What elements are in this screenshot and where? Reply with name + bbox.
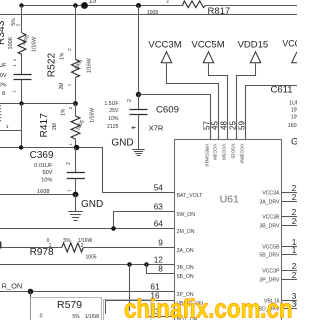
svg-text:5B_DRV: 5B_DRV: [259, 253, 280, 259]
svg-text:VCC3BW: VCC3BW: [240, 144, 245, 164]
svg-text:59: 59: [238, 121, 247, 130]
net label fragment left edge (3A_ON): [0, 242, 1, 249]
svg-text:2: 2: [81, 243, 84, 249]
svg-text:VCC3A: VCC3A: [262, 191, 280, 197]
svg-text:chinafix.com.cn: chinafix.com.cn: [124, 296, 293, 320]
svg-text:54: 54: [154, 184, 164, 193]
svg-text:GND: GND: [111, 138, 133, 149]
resistor R978 on 3A_ON (pin 9): [0, 247, 62, 249]
capacitor C609: [138, 6, 140, 95]
svg-text:28: 28: [292, 262, 297, 271]
svg-text:1/16W: 1/16W: [31, 37, 37, 52]
svg-text:U61: U61: [220, 193, 239, 205]
svg-text:10%: 10%: [108, 116, 119, 122]
outline box (bottom middle group): [104, 300, 152, 320]
svg-text:VCC3B: VCC3B: [262, 215, 280, 221]
svg-text:1005: 1005: [85, 254, 96, 260]
svg-text:0V: 0V: [0, 73, 7, 79]
svg-text:22: 22: [292, 193, 297, 202]
off-page connector (dashed, left edge): [0, 105, 2, 122]
svg-text:5%: 5%: [72, 314, 80, 320]
U61 right pins: [282, 192, 298, 194]
svg-text:3A_ON: 3A_ON: [177, 248, 194, 254]
svg-text:8: 8: [158, 265, 163, 274]
svg-text:2: 2: [66, 162, 72, 165]
svg-text:VCC3M: VCC3M: [213, 144, 218, 160]
svg-text:C369: C369: [30, 150, 54, 161]
svg-text:VCC5M: VCC5M: [191, 39, 224, 50]
svg-text:GND: GND: [81, 199, 103, 210]
svg-text:R579: R579: [57, 299, 82, 311]
wire: top net A horizontal: [22, 5, 298, 7]
wire: net D horizontal: [0, 103, 76, 105]
svg-text:UF: UF: [0, 63, 7, 69]
op-amp U61 IC body: [175, 140, 282, 320]
svg-text:C609: C609: [156, 104, 179, 115]
svg-text:1.5UF: 1.5UF: [104, 101, 118, 107]
svg-text:30: 30: [292, 300, 297, 309]
svg-text:12: 12: [154, 256, 164, 265]
ground (C369): [75, 195, 77, 212]
resistor R343: [21, 6, 23, 34]
svg-text:R417: R417: [39, 113, 50, 138]
svg-text:2M: 2M: [59, 83, 65, 90]
svg-text:2: 2: [127, 99, 133, 102]
wire: second top net B horizontal: [0, 14, 297, 16]
resistor R817: [182, 1, 205, 8]
svg-text:1UF: 1UF: [289, 101, 297, 107]
svg-text:1: 1: [6, 124, 9, 130]
svg-text:45: 45: [211, 121, 220, 130]
svg-text:C611: C611: [271, 85, 293, 96]
svg-text:1608: 1608: [288, 123, 297, 129]
svg-text:1005: 1005: [147, 10, 159, 16]
svg-text:25V: 25V: [109, 108, 119, 114]
svg-text:48: 48: [220, 121, 229, 130]
wire: left stub into net D column: [21, 104, 23, 148]
resistor R522: [75, 6, 77, 60]
wire: VBL16_ON (pin 16): [106, 301, 175, 315]
svg-text:2: 2: [15, 23, 21, 26]
wire: 5B_ON (pin 8): [147, 265, 175, 274]
svg-text:63: 63: [154, 203, 164, 212]
svg-text:64: 64: [154, 220, 164, 229]
svg-text:10%: 10%: [291, 115, 297, 121]
svg-text:2125: 2125: [107, 124, 119, 130]
svg-text:20: 20: [292, 217, 297, 226]
wire: 3P_ON (pin 61) with net label R_ON: [0, 291, 175, 293]
svg-text:1: 1: [49, 243, 52, 249]
svg-text:R343: R343: [0, 20, 7, 45]
svg-text:50V: 50V: [43, 170, 53, 176]
svg-text:8: 8: [2, 91, 5, 97]
svg-text:5%: 5%: [63, 238, 71, 244]
svg-text:VCC3P: VCC3P: [262, 269, 280, 275]
svg-text:3B_DRV: 3B_DRV: [259, 224, 280, 230]
svg-text:9: 9: [158, 239, 163, 248]
svg-text:GND: GND: [291, 137, 297, 148]
svg-text:17: 17: [292, 246, 297, 255]
svg-text:10%: 10%: [291, 108, 297, 114]
svg-text:2M: 2M: [52, 123, 58, 130]
svg-text:2: 2: [166, 0, 169, 5]
outline box (R579 group): [31, 298, 102, 320]
svg-text:3A_DRV: 3A_DRV: [259, 200, 280, 206]
svg-text:3P_DRV: 3P_DRV: [259, 278, 280, 284]
svg-text:R522: R522: [47, 52, 58, 77]
svg-text:25: 25: [229, 121, 238, 130]
svg-text:VCC3BW: VCC3BW: [282, 39, 297, 49]
node: junction dots on wire A: [19, 3, 23, 7]
svg-text:1: 1: [67, 189, 73, 192]
svg-text:21: 21: [292, 208, 297, 217]
wire: net F horizontal to ground: [0, 194, 76, 196]
wire: VREGIN16 feed from C609 node: [139, 95, 211, 140]
wire: net E horizontal (BAT_VOLT): [0, 148, 175, 193]
svg-text:0: 0: [40, 314, 43, 320]
svg-text:0.01UF: 0.01UF: [34, 163, 53, 169]
svg-text:VREGIN16: VREGIN16: [205, 144, 210, 167]
svg-text:VCC3M: VCC3M: [148, 39, 181, 50]
wire: BD1_ON stub: [149, 316, 175, 318]
svg-text:1/16W: 1/16W: [89, 108, 95, 123]
svg-text:X7R: X7R: [149, 124, 164, 133]
svg-text:1/16W: 1/16W: [85, 314, 100, 320]
svg-text:VCC5M: VCC5M: [222, 144, 227, 160]
svg-text:100K: 100K: [8, 36, 14, 49]
svg-text:R817: R817: [208, 6, 231, 17]
svg-text:10%: 10%: [41, 178, 52, 184]
svg-text:61: 61: [150, 283, 160, 292]
svg-text:1%: 1%: [60, 108, 66, 116]
svg-text:BAT_VOLT: BAT_VOLT: [177, 193, 204, 199]
svg-text:5W_ON: 5W_ON: [177, 212, 196, 218]
svg-text:5B_ON: 5B_ON: [177, 274, 194, 280]
capacitor C369: [75, 148, 77, 173]
svg-text:27: 27: [292, 271, 297, 280]
wire: 5W_ON (pin 63): [114, 212, 175, 229]
ground (C609): [132, 149, 144, 151]
U61 top pin wires, numbers and names: [210, 95, 212, 140]
polarity mark near C609: [132, 126, 136, 129]
svg-text:23: 23: [292, 184, 297, 193]
capacitor (left edge, partially cut): [21, 55, 23, 75]
svg-text:1%: 1%: [60, 52, 66, 60]
svg-text:2: 2: [68, 106, 74, 109]
svg-text:3B_ON: 3B_ON: [177, 265, 194, 271]
wire: 3M_ON (pin 64): [0, 228, 175, 230]
wire: 3B_ON (pin 12): [0, 264, 175, 266]
svg-text:VDD15: VDD15: [231, 144, 236, 159]
svg-text:R_ON: R_ON: [2, 281, 23, 290]
svg-text:1/16W: 1/16W: [87, 58, 93, 73]
svg-text:3M_ON: 3M_ON: [177, 229, 195, 235]
svg-text:0%: 0%: [0, 83, 7, 89]
svg-text:2: 2: [67, 48, 73, 51]
svg-text:15: 15: [89, 0, 97, 5]
resistor R417: [75, 104, 77, 117]
wire: VCC3BW feed from right edge: [246, 86, 298, 140]
svg-text:VDD15: VDD15: [238, 39, 269, 50]
svg-text:VCC5B: VCC5B: [262, 245, 280, 251]
